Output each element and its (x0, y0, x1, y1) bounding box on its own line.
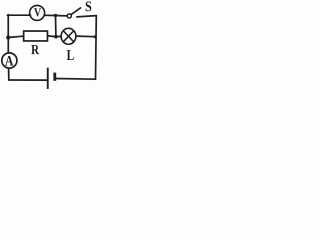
battery short plate (-) (53, 73, 56, 81)
wire resistor left to left junction (8, 36, 23, 37)
wire right side vertical (95, 16, 98, 80)
lamp L cross (63, 31, 73, 42)
switch S pivot circle (67, 14, 71, 18)
wire lamp left to mid junction (56, 35, 62, 37)
wire left side upper vertical (7, 15, 9, 53)
label A (ammeter) (5, 56, 13, 66)
resistor R box (24, 31, 48, 41)
wire bottom-right segment (55, 78, 95, 81)
wire bottom-left segment (9, 79, 47, 81)
node left junction dot (6, 36, 10, 40)
battery long plate (+) (47, 68, 49, 89)
node top junction dot (54, 14, 57, 17)
node right junction dot (94, 35, 97, 38)
wire vertical tap from top junction down to mid junction (55, 16, 57, 37)
wire switch contact to top-right corner (77, 16, 96, 17)
switch S lever (open) (71, 8, 80, 14)
label S (switch) (86, 1, 92, 11)
wire voltmeter to top junction (44, 14, 55, 16)
ammeter A1 circle (2, 53, 17, 68)
node mid junction dot (between R and L) (54, 35, 58, 39)
voltmeter V1 circle (30, 5, 45, 20)
lamp L circle (61, 28, 76, 44)
wire resistor to mid junction (48, 35, 56, 38)
wire lamp to right side (76, 35, 95, 38)
label L (lamp) (67, 50, 74, 60)
wire top junction to switch pivot (56, 15, 68, 17)
label V (voltmeter) (34, 8, 41, 16)
label R (resistor) (31, 45, 39, 54)
wire left side lower vertical (8, 68, 10, 80)
wire top-left segment (7, 14, 30, 16)
